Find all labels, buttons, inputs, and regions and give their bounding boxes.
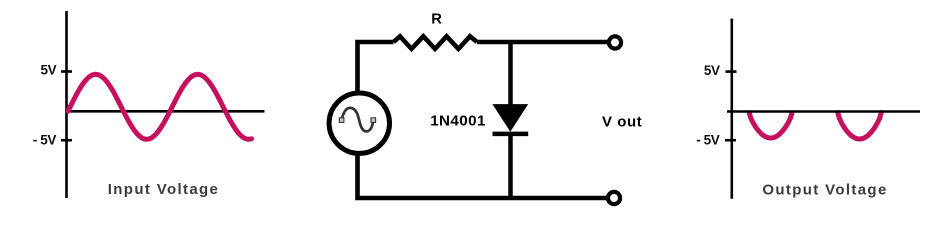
svg-text:- 5V: - 5V bbox=[696, 132, 720, 147]
node input +5V tick bbox=[61, 70, 72, 73]
svg-text:- 5V: - 5V bbox=[33, 132, 57, 147]
terminal top output circle bbox=[609, 36, 621, 48]
wire output half-wave dip 1 bbox=[749, 113, 792, 138]
svg-text:1N4001: 1N4001 bbox=[430, 113, 486, 130]
ac source V1 right anchor square bbox=[371, 118, 376, 123]
resistor R1 zigzag bbox=[394, 36, 478, 49]
terminal bottom output circle bbox=[608, 192, 620, 204]
svg-text:R: R bbox=[431, 12, 442, 28]
wire top: resistor to output terminal bbox=[477, 40, 608, 45]
node junction diode top bbox=[508, 42, 513, 106]
node output +5V tick bbox=[726, 70, 737, 73]
node output -5V tick bbox=[725, 139, 736, 142]
node input X-axis bbox=[65, 110, 264, 113]
node input Y-axis bbox=[65, 11, 68, 198]
wire output half-wave dip 2 bbox=[838, 113, 881, 139]
node output Y-axis bbox=[730, 19, 733, 199]
left graph: input voltage bbox=[33, 11, 265, 198]
diode D1 triangle bbox=[492, 104, 528, 132]
node input -5V tick bbox=[61, 139, 72, 142]
right graph: output voltage bbox=[696, 19, 920, 199]
diode D1 cathode bar bbox=[493, 132, 529, 137]
wire input sine wave bbox=[68, 74, 252, 139]
middle circuit bbox=[329, 12, 642, 204]
wire bottom: source to output terminal bbox=[358, 152, 607, 198]
svg-text:Input Voltage: Input Voltage bbox=[108, 181, 219, 198]
ac source V1 sine symbol bbox=[342, 108, 374, 132]
svg-text:V out: V out bbox=[602, 113, 642, 130]
ac source V1 left anchor square bbox=[339, 118, 344, 123]
svg-text:5V: 5V bbox=[704, 63, 720, 78]
wire diode to bottom bbox=[508, 134, 513, 198]
ac source V1 circle bbox=[329, 93, 389, 153]
svg-text:Output Voltage: Output Voltage bbox=[762, 181, 887, 198]
node output X-axis bbox=[727, 110, 920, 113]
svg-text:5V: 5V bbox=[40, 63, 56, 78]
wire top: source to resistor bbox=[358, 42, 394, 95]
